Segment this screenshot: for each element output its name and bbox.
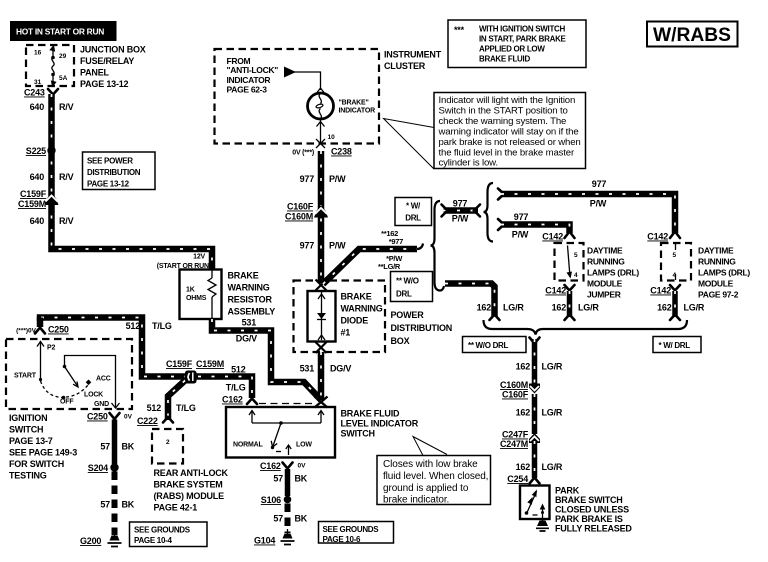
svg-text:PAGE 13-12: PAGE 13-12 bbox=[87, 180, 130, 189]
wire 162 LG/R below DRL module bbox=[650, 285, 705, 320]
svg-text:PAGE 13-7: PAGE 13-7 bbox=[9, 436, 53, 446]
wire 977 P/W short jumper segment bbox=[442, 199, 481, 224]
ground G200 bbox=[80, 531, 122, 547]
svg-text:(***)0V: (***)0V bbox=[16, 328, 37, 335]
svg-text:C222: C222 bbox=[137, 416, 158, 426]
connector C247F/C247M inline bbox=[500, 430, 540, 450]
underbrace joining three 162 branches bbox=[484, 320, 688, 335]
label 512 T/LG (top) bbox=[126, 321, 172, 331]
label 512 T/LG (RABS branch) bbox=[147, 403, 196, 413]
connector C243 bbox=[24, 88, 58, 98]
svg-text:BK: BK bbox=[295, 514, 308, 524]
svg-text:INSTRUMENT: INSTRUMENT bbox=[384, 50, 442, 60]
svg-text:PARK: PARK bbox=[555, 486, 580, 496]
svg-text:C243: C243 bbox=[24, 88, 45, 98]
svg-text:640: 640 bbox=[30, 216, 45, 226]
svg-text:P/W: P/W bbox=[329, 241, 346, 251]
svg-text:R/V: R/V bbox=[59, 172, 74, 182]
svg-text:57: 57 bbox=[100, 442, 110, 452]
svg-text:C238: C238 bbox=[331, 147, 352, 157]
svg-text:4: 4 bbox=[574, 272, 578, 279]
svg-text:LG/R: LG/R bbox=[684, 303, 705, 313]
wire 57 BK dashed: S204 to G200 bbox=[100, 472, 134, 536]
label 977 P/W (2) bbox=[300, 241, 347, 251]
svg-text:POWER: POWER bbox=[391, 310, 425, 320]
svg-text:PAGE 42-1: PAGE 42-1 bbox=[154, 503, 198, 513]
power distribution box (dashed) bbox=[294, 281, 453, 353]
svg-text:PAGE 10-6: PAGE 10-6 bbox=[323, 535, 361, 544]
wire 977 P/W long top branch to DRL module bbox=[498, 179, 680, 242]
svg-text:LAMPS (DRL): LAMPS (DRL) bbox=[587, 268, 639, 278]
svg-text:Switch in the START position t: Switch in the START position to bbox=[439, 106, 568, 117]
svg-text:LAMPS (DRL): LAMPS (DRL) bbox=[698, 268, 750, 278]
wire lamp to C238, pin 10 bbox=[316, 119, 335, 148]
svg-text:PAGE 62-3: PAGE 62-3 bbox=[227, 85, 268, 95]
svg-text:LG/R: LG/R bbox=[542, 408, 563, 418]
brace right (splits to two DRL branches) bbox=[484, 183, 494, 242]
svg-text:512: 512 bbox=[231, 365, 246, 375]
svg-text:C159F: C159F bbox=[20, 189, 47, 199]
svg-text:* W/ DRL: * W/ DRL bbox=[659, 341, 691, 350]
SEE POWER DISTRIBUTION box bbox=[83, 152, 156, 190]
svg-text:OFF: OFF bbox=[60, 399, 74, 406]
wire 640 R/V: junction box to resistor 12V feed bbox=[52, 94, 213, 270]
svg-text:T/LG: T/LG bbox=[226, 383, 246, 393]
splice node S225 bbox=[26, 146, 56, 156]
svg-text:S225: S225 bbox=[26, 146, 46, 156]
note box: closes with low brake fluid bbox=[377, 437, 491, 506]
svg-text:C162: C162 bbox=[222, 395, 243, 405]
connector C250 top bbox=[16, 325, 69, 335]
svg-text:DISTRIBUTION: DISTRIBUTION bbox=[87, 168, 141, 177]
svg-text:162: 162 bbox=[657, 303, 672, 313]
wire 162 LG/R chain to park brake switch bbox=[516, 338, 563, 386]
svg-text:SWITCH: SWITCH bbox=[9, 425, 43, 435]
svg-text:W/RABS: W/RABS bbox=[653, 25, 731, 46]
wire 531 DG/V: diode bottom to brake fluid switch bbox=[318, 352, 325, 400]
box *W/ DRL bbox=[395, 198, 432, 226]
svg-text:** W/O DRL: ** W/O DRL bbox=[468, 341, 509, 350]
svg-text:31: 31 bbox=[34, 79, 42, 86]
svg-text:RUNNING: RUNNING bbox=[698, 257, 736, 267]
svg-text:C142: C142 bbox=[542, 232, 563, 242]
svg-text:START: START bbox=[14, 373, 37, 380]
label: BRAKE WARNING DIODE #1 bbox=[341, 292, 383, 338]
svg-text:NORMAL: NORMAL bbox=[233, 442, 263, 449]
svg-text:C160M: C160M bbox=[285, 212, 313, 222]
svg-text:CLOSED UNLESS: CLOSED UNLESS bbox=[555, 505, 629, 515]
svg-text:531: 531 bbox=[300, 364, 315, 374]
box SEE GROUNDS PAGE 10-4 bbox=[130, 522, 208, 547]
svg-text:C162: C162 bbox=[260, 461, 281, 471]
svg-text:fluid level. When closed,: fluid level. When closed, bbox=[383, 471, 488, 482]
splice node S106 bbox=[261, 495, 292, 505]
svg-text:977: 977 bbox=[514, 212, 529, 222]
svg-text:"ANTI-LOCK": "ANTI-LOCK" bbox=[227, 65, 279, 75]
svg-text:IGNITION: IGNITION bbox=[9, 413, 47, 423]
svg-text:162: 162 bbox=[552, 303, 567, 313]
svg-text:**LG/R: **LG/R bbox=[378, 262, 401, 271]
svg-text:C160F: C160F bbox=[287, 202, 314, 212]
wire 162 LG/R (2) bbox=[516, 394, 563, 434]
connector C162 left pin bbox=[222, 395, 314, 405]
svg-text:*977: *977 bbox=[389, 237, 403, 246]
svg-text:SEE GROUNDS: SEE GROUNDS bbox=[134, 526, 191, 535]
label: BRAKE WARNING RESISTOR ASSEMBLY bbox=[228, 271, 276, 317]
svg-text:C250: C250 bbox=[48, 325, 69, 335]
svg-text:512: 512 bbox=[126, 321, 141, 331]
svg-text:check the warning system. The: check the warning system. The bbox=[439, 116, 567, 127]
node C238 bbox=[292, 147, 352, 157]
RABS module (dashed box) pin 2 bbox=[152, 429, 183, 464]
svg-text:57: 57 bbox=[100, 500, 110, 510]
svg-text:BK: BK bbox=[122, 500, 135, 510]
svg-text:2: 2 bbox=[166, 439, 170, 446]
svg-text:640: 640 bbox=[30, 172, 45, 182]
diode CR1 brake warning diode #1 bbox=[308, 291, 336, 342]
svg-text:BRAKE SWITCH: BRAKE SWITCH bbox=[555, 495, 623, 505]
svg-text:***: *** bbox=[454, 25, 465, 35]
svg-text:SEE GROUNDS: SEE GROUNDS bbox=[323, 525, 380, 534]
label 640 R/V (2) bbox=[30, 172, 74, 182]
svg-text:10: 10 bbox=[328, 134, 336, 141]
svg-text:park brake is not released or: park brake is not released or when bbox=[439, 137, 581, 148]
svg-text:SWITCH: SWITCH bbox=[341, 429, 375, 439]
svg-text:* W/: * W/ bbox=[406, 202, 421, 211]
svg-text:512: 512 bbox=[147, 403, 162, 413]
svg-text:16: 16 bbox=[34, 50, 42, 57]
svg-text:BOX: BOX bbox=[391, 336, 410, 346]
svg-text:OHMS: OHMS bbox=[186, 295, 207, 302]
svg-text:HOT IN START OR RUN: HOT IN START OR RUN bbox=[16, 27, 104, 37]
label: REAR ANTI-LOCK BRAKE SYSTEM (RABS) MODULE bbox=[154, 468, 229, 513]
svg-text:DAYTIME: DAYTIME bbox=[698, 246, 734, 256]
svg-text:C254: C254 bbox=[507, 474, 528, 484]
svg-text:C247F: C247F bbox=[502, 430, 529, 440]
lamp "BRAKE" indicator bbox=[308, 93, 376, 119]
connector C160M/C160F inline bbox=[500, 380, 540, 400]
svg-text:5: 5 bbox=[574, 252, 578, 259]
svg-text:PAGE 13-12: PAGE 13-12 bbox=[80, 79, 129, 89]
svg-text:57: 57 bbox=[273, 474, 283, 484]
splice node S204 bbox=[88, 463, 119, 473]
svg-text:C159M: C159M bbox=[18, 199, 46, 209]
svg-text:0V: 0V bbox=[298, 463, 307, 470]
svg-text:531: 531 bbox=[242, 318, 257, 328]
label 531 DG/V (resistor side) bbox=[236, 318, 257, 344]
svg-text:BRAKE FLUID: BRAKE FLUID bbox=[341, 409, 400, 419]
ignition switch (dashed box) bbox=[6, 339, 132, 409]
label: DAYTIME RUNNING LAMPS (DRL) MODULE JUMPER bbox=[587, 246, 639, 300]
svg-text:29: 29 bbox=[59, 53, 67, 60]
svg-text:#1: #1 bbox=[341, 328, 351, 338]
svg-text:1K: 1K bbox=[186, 287, 195, 294]
svg-text:DAYTIME: DAYTIME bbox=[587, 246, 623, 256]
svg-text:977: 977 bbox=[300, 241, 315, 251]
wire 977 P/W second branch to DRL jumper bbox=[498, 212, 575, 242]
svg-text:MODULE: MODULE bbox=[698, 279, 734, 289]
svg-text:ASSEMBLY: ASSEMBLY bbox=[228, 307, 276, 317]
svg-text:JUMPER: JUMPER bbox=[587, 290, 621, 300]
wire 57 BK dashed: S106 to G104 bbox=[273, 504, 307, 534]
svg-text:(RABS) MODULE: (RABS) MODULE bbox=[154, 491, 225, 501]
svg-text:977: 977 bbox=[300, 174, 315, 184]
svg-text:S106: S106 bbox=[261, 495, 281, 505]
connector C160F/C160M inline bbox=[285, 202, 328, 222]
svg-text:ACC: ACC bbox=[96, 376, 111, 383]
svg-text:162: 162 bbox=[516, 408, 531, 418]
DRL module (dashed box, page 97-2) bbox=[661, 243, 691, 281]
fuse F (5A) bbox=[49, 44, 57, 88]
label 512 T/LG (right of connector) bbox=[226, 365, 246, 393]
label 531 DG/V (diode side) bbox=[300, 364, 352, 374]
svg-text:ground is applied to: ground is applied to bbox=[383, 483, 469, 494]
svg-text:G104: G104 bbox=[254, 536, 275, 546]
brake warning resistor assembly box bbox=[180, 270, 222, 320]
svg-text:** W/O: ** W/O bbox=[396, 277, 419, 286]
svg-text:162: 162 bbox=[477, 303, 492, 313]
svg-text:P2: P2 bbox=[47, 345, 55, 352]
svg-text:TESTING: TESTING bbox=[9, 471, 47, 481]
box **W/O DRL bbox=[391, 272, 433, 302]
svg-text:MODULE: MODULE bbox=[587, 279, 623, 289]
box * W/DRL bbox=[653, 337, 701, 353]
svg-text:0V (***): 0V (***) bbox=[292, 150, 314, 157]
wire 57 BK: brake fluid switch to S106 bbox=[273, 469, 307, 496]
svg-text:RESISTOR: RESISTOR bbox=[228, 295, 273, 305]
label 12V (START OR RUN) bbox=[157, 254, 211, 271]
wire 162 LG/R below DRL jumper bbox=[545, 285, 599, 320]
svg-text:INDICATOR: INDICATOR bbox=[339, 108, 376, 115]
svg-text:SEE PAGE 149-3: SEE PAGE 149-3 bbox=[9, 448, 77, 458]
svg-text:5A: 5A bbox=[59, 75, 68, 82]
wire 531 DG/V: resistor to brake fluid switch bbox=[212, 319, 321, 400]
svg-text:R/V: R/V bbox=[59, 102, 74, 112]
svg-text:PAGE 97-2: PAGE 97-2 bbox=[698, 290, 739, 300]
svg-text:BRAKE FLUID: BRAKE FLUID bbox=[479, 55, 530, 64]
svg-text:BK: BK bbox=[122, 442, 135, 452]
connector C250 bottom bbox=[87, 412, 133, 422]
wire 977/162: diode top to brace bbox=[323, 244, 423, 285]
svg-text:LG/R: LG/R bbox=[542, 462, 563, 472]
svg-text:C159M: C159M bbox=[196, 359, 224, 369]
svg-text:LG/R: LG/R bbox=[503, 303, 524, 313]
svg-text:FUSE/RELAY: FUSE/RELAY bbox=[80, 56, 134, 66]
svg-text:P/W: P/W bbox=[590, 199, 607, 209]
ignition switch internals bbox=[37, 342, 120, 409]
svg-text:RUNNING: RUNNING bbox=[587, 257, 625, 267]
brace left (groups 977 feed and 162 branch) bbox=[431, 201, 441, 291]
connector C162 bottom bbox=[260, 461, 306, 471]
svg-text:JUNCTION BOX: JUNCTION BOX bbox=[80, 45, 146, 55]
svg-text:IN START, PARK BRAKE: IN START, PARK BRAKE bbox=[479, 35, 567, 44]
junction X at brake fluid switch right pin C162 bbox=[315, 397, 328, 408]
svg-text:C142: C142 bbox=[545, 286, 566, 296]
svg-text:C142: C142 bbox=[650, 286, 671, 296]
label: DAYTIME RUNNING LAMPS (DRL) MODULE PAGE 97-2 bbox=[698, 246, 750, 300]
svg-text:T/LG: T/LG bbox=[152, 321, 172, 331]
resistor R1 1K bbox=[208, 270, 216, 319]
note box: with ignition switch bbox=[448, 20, 586, 68]
svg-text:PAGE 10-4: PAGE 10-4 bbox=[134, 536, 172, 545]
svg-text:57: 57 bbox=[273, 514, 283, 524]
svg-text:DRL: DRL bbox=[405, 214, 421, 223]
svg-text:DG/V: DG/V bbox=[330, 364, 351, 374]
junction box fuse/relay panel (dashed) bbox=[26, 45, 74, 86]
svg-text:LOW: LOW bbox=[296, 442, 312, 449]
svg-text:C247M: C247M bbox=[500, 439, 528, 449]
svg-text:S204: S204 bbox=[88, 463, 108, 473]
svg-text:C160M: C160M bbox=[500, 380, 528, 390]
svg-text:"BRAKE": "BRAKE" bbox=[339, 100, 369, 107]
svg-text:WARNING: WARNING bbox=[228, 283, 270, 293]
svg-text:warning indicator will stay on: warning indicator will stay on if the bbox=[438, 127, 579, 138]
svg-text:R/V: R/V bbox=[59, 216, 74, 226]
svg-text:0V: 0V bbox=[124, 414, 133, 421]
label: IGNITION SWITCH bbox=[9, 413, 77, 481]
svg-text:BRAKE: BRAKE bbox=[341, 292, 372, 302]
svg-text:977: 977 bbox=[592, 179, 607, 189]
svg-text:LG/R: LG/R bbox=[578, 303, 599, 313]
svg-text:INDICATOR: INDICATOR bbox=[227, 75, 271, 85]
label 640 R/V (3) bbox=[30, 216, 74, 226]
svg-text:640: 640 bbox=[30, 102, 45, 112]
svg-text:SEE POWER: SEE POWER bbox=[87, 157, 133, 166]
svg-text:C142: C142 bbox=[647, 232, 668, 242]
junction X at diode top bbox=[316, 280, 327, 291]
svg-text:DISTRIBUTION: DISTRIBUTION bbox=[391, 323, 453, 333]
arrow from anti-lock indicator bbox=[284, 67, 324, 93]
wire 162 LG/R from left brace bbox=[440, 284, 524, 321]
svg-text:P/W: P/W bbox=[329, 174, 346, 184]
header bar HOT IN START OR RUN bbox=[10, 21, 117, 41]
svg-text:BRAKE SYSTEM: BRAKE SYSTEM bbox=[154, 480, 223, 490]
svg-text:162: 162 bbox=[516, 362, 531, 372]
svg-text:C250: C250 bbox=[87, 412, 108, 422]
wire 512 T/LG branch to RABS module bbox=[163, 381, 185, 423]
connector C159F/C159M inline bbox=[18, 189, 59, 209]
note box: indicator will light bbox=[384, 93, 586, 170]
svg-text:T/LG: T/LG bbox=[176, 403, 196, 413]
svg-text:C159F: C159F bbox=[166, 359, 193, 369]
ground G104 bbox=[254, 529, 295, 546]
svg-text:LOCK: LOCK bbox=[84, 392, 103, 399]
wire 162 LG/R (3) bbox=[516, 441, 563, 478]
svg-text:BRAKE: BRAKE bbox=[228, 271, 259, 281]
label 640 R/V (1) bbox=[30, 102, 74, 112]
label: BRAKE FLUID LEVEL INDICATOR SWITCH bbox=[341, 409, 419, 439]
svg-text:DIODE: DIODE bbox=[341, 316, 369, 326]
label: JUNCTION BOX bbox=[80, 45, 146, 90]
svg-text:BK: BK bbox=[295, 474, 308, 484]
svg-text:DRL: DRL bbox=[396, 290, 412, 299]
svg-text:FOR SWITCH: FOR SWITCH bbox=[9, 459, 64, 469]
svg-text:G200: G200 bbox=[80, 536, 101, 546]
svg-text:5: 5 bbox=[673, 252, 677, 259]
wire 512 T/LG: ignition switch feed bbox=[40, 318, 252, 399]
svg-text:162: 162 bbox=[516, 462, 531, 472]
svg-text:WARNING: WARNING bbox=[341, 304, 383, 314]
labels **162 *977 / *P/W **LG/R bbox=[378, 229, 403, 271]
svg-text:P/W: P/W bbox=[512, 230, 529, 240]
svg-text:LG/R: LG/R bbox=[542, 362, 563, 372]
svg-text:WITH IGNITION SWITCH: WITH IGNITION SWITCH bbox=[479, 25, 566, 34]
svg-text:C160F: C160F bbox=[502, 390, 529, 400]
brake fluid level indicator switch box bbox=[226, 407, 335, 458]
svg-text:FULLY RELEASED: FULLY RELEASED bbox=[555, 524, 632, 534]
box SEE GROUNDS PAGE 10-6 bbox=[319, 522, 394, 545]
label: PARK BRAKE SWITCH bbox=[555, 486, 632, 534]
svg-text:Indicator will light with the: Indicator will light with the Ignition bbox=[439, 95, 576, 106]
svg-text:Closes with low brake: Closes with low brake bbox=[383, 459, 478, 470]
connector C254 bbox=[507, 474, 539, 484]
label 977 P/W (1) bbox=[300, 174, 347, 184]
W/RABS title box bbox=[647, 22, 738, 47]
connector C159F/C159M inline (512 run) bbox=[166, 359, 224, 384]
wire 57 BK: ignition to S204 bbox=[100, 420, 134, 465]
svg-text:APPLIED OR LOW: APPLIED OR LOW bbox=[479, 45, 545, 54]
wire 977 P/W: C238 down to diode bbox=[318, 151, 325, 283]
ground at park brake switch bbox=[536, 521, 549, 532]
svg-text:DG/V: DG/V bbox=[236, 334, 257, 344]
svg-text:LEVEL INDICATOR: LEVEL INDICATOR bbox=[341, 419, 419, 429]
svg-text:cylinder is low.: cylinder is low. bbox=[439, 158, 498, 169]
svg-text:PARK BRAKE IS: PARK BRAKE IS bbox=[555, 514, 623, 524]
instrument cluster (dashed box) bbox=[215, 49, 442, 144]
box ** W/O DRL bbox=[463, 337, 527, 353]
svg-text:977: 977 bbox=[453, 199, 468, 209]
svg-text:12V: 12V bbox=[193, 254, 205, 261]
svg-text:P/W: P/W bbox=[452, 214, 469, 224]
svg-text:GND: GND bbox=[94, 401, 109, 408]
svg-text:REAR ANTI-LOCK: REAR ANTI-LOCK bbox=[154, 468, 229, 478]
junction X at diode bottom bbox=[316, 342, 327, 353]
svg-text:CLUSTER: CLUSTER bbox=[384, 61, 426, 71]
svg-text:PANEL: PANEL bbox=[80, 68, 110, 78]
DRL module jumper (dashed box) bbox=[555, 243, 584, 281]
park brake switch SW2 bbox=[520, 486, 550, 522]
svg-text:brake indicator.: brake indicator. bbox=[383, 495, 449, 506]
